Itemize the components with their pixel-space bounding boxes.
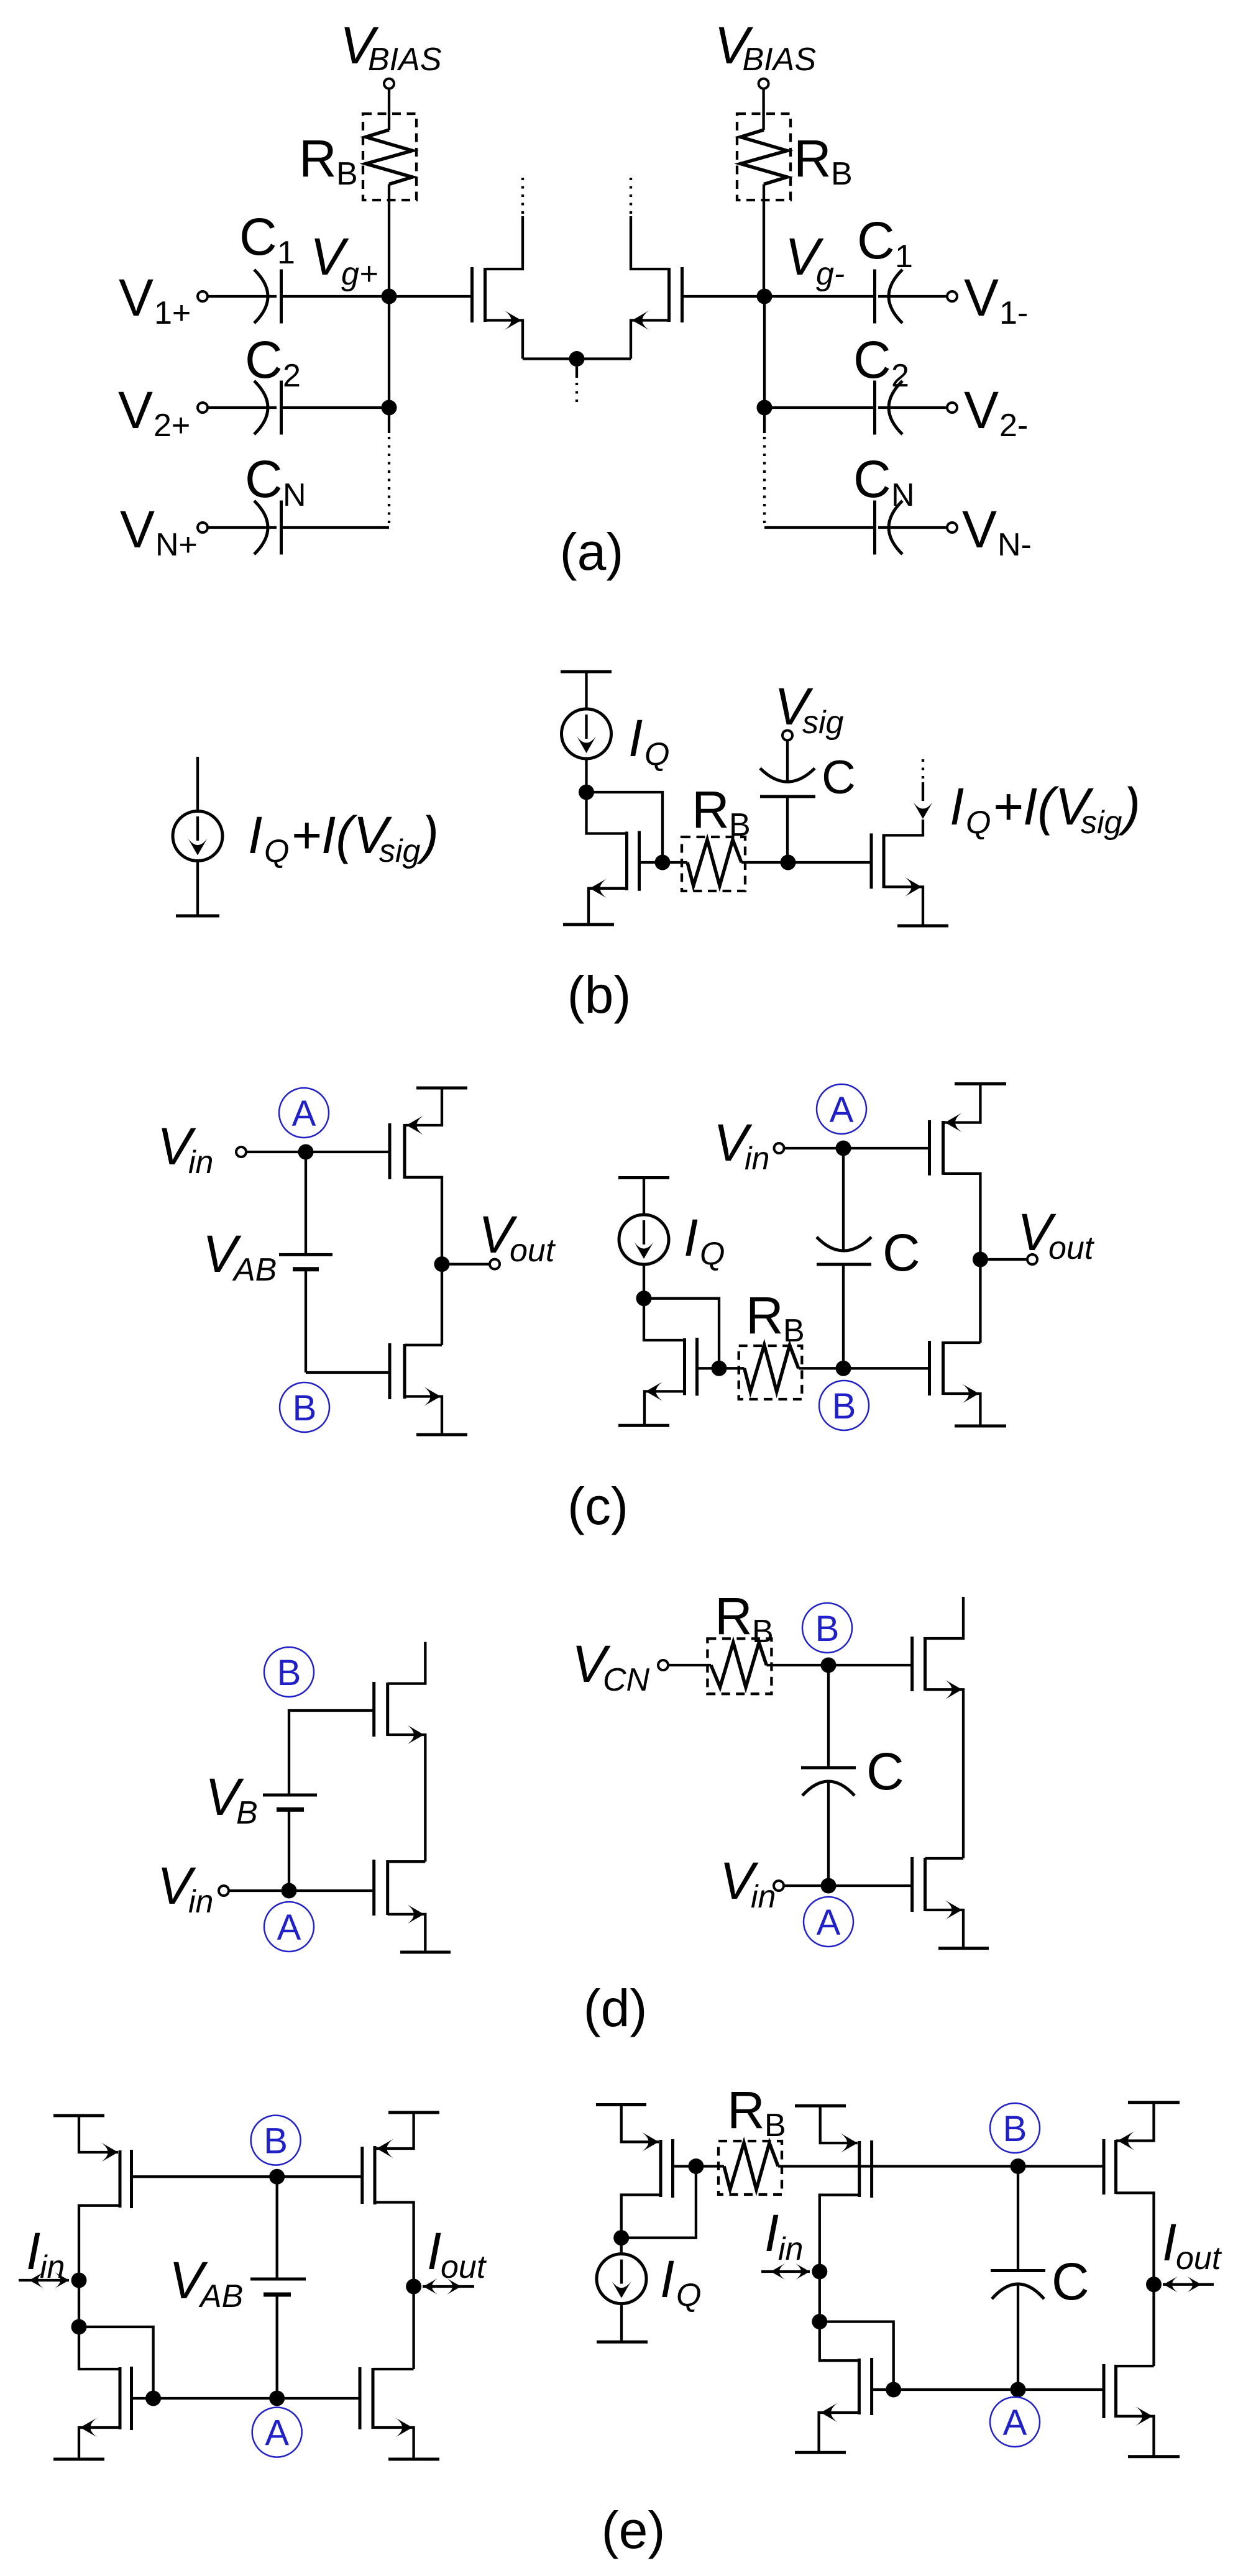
wire Vsig to capacitor C <box>786 741 789 782</box>
ground bar N3 <box>795 2451 846 2454</box>
node B circled label (c) left <box>280 1382 329 1432</box>
svg-text:C: C <box>853 450 891 508</box>
wire dotted above M2 drain <box>630 178 632 214</box>
svg-text:R: R <box>715 1587 753 1645</box>
svg-text:+I(V: +I(V <box>291 806 392 864</box>
transistor MP (c) right <box>928 1120 931 1176</box>
resistor RB (e) zigzag <box>724 2143 778 2190</box>
node Vout terminal (c) left <box>490 1259 500 1269</box>
resistor RB left zigzag <box>366 130 413 185</box>
wire bus Vg- to row2 <box>763 296 766 408</box>
node diode junction (e) right <box>812 2314 827 2329</box>
svg-text:B: B <box>783 1313 805 1349</box>
resistor RB (e) dashed box <box>718 2141 782 2195</box>
svg-text:B: B <box>277 1653 301 1693</box>
wire Iout to N2 drain <box>412 2286 415 2369</box>
node VN- terminal <box>947 523 957 532</box>
node B circled label (c) right <box>819 1381 869 1430</box>
svg-text:sig: sig <box>802 705 844 741</box>
wire Iin to diode node <box>78 2280 80 2327</box>
wire Vin to gate (d) right <box>784 1884 912 1887</box>
svg-text:R: R <box>692 780 730 839</box>
wire current source to M5 drain <box>643 1264 645 1299</box>
svg-text:C: C <box>245 331 283 389</box>
wire VCN to RB (d) <box>668 1664 711 1666</box>
capacitor CN left <box>254 501 268 554</box>
wire gate dot to RB (e) <box>696 2165 724 2167</box>
transistor N3 (e) right <box>820 2322 860 2361</box>
wire RB to B node (d) <box>766 1664 912 1666</box>
svg-text:I: I <box>427 2222 441 2280</box>
node B junction (e) right <box>1011 2158 1026 2174</box>
svg-text:B: B <box>752 1614 774 1650</box>
svg-text:C: C <box>822 751 856 804</box>
wire Vout (c) left <box>441 1256 443 1345</box>
node A junction (e) right <box>1011 2382 1026 2398</box>
resistor RB (d) zigzag <box>711 1643 766 1688</box>
ground bar (d) right <box>938 1947 989 1950</box>
svg-text:BIAS: BIAS <box>368 42 442 78</box>
rail bar top of (b) right <box>561 670 612 674</box>
svg-text:(b): (b) <box>567 966 631 1024</box>
svg-text:B: B <box>815 1609 840 1649</box>
svg-text:BIAS: BIAS <box>743 42 817 78</box>
svg-text:in: in <box>188 1144 213 1181</box>
wire CN to VN- <box>878 526 947 529</box>
resistor RB right (dashed box) <box>737 114 791 200</box>
wire C2 to V2- <box>878 406 947 409</box>
node Vg+ junction <box>382 289 397 304</box>
wire bus to CN right <box>764 526 875 529</box>
node M5 gate junction <box>712 1361 727 1376</box>
wire CN to bus <box>282 526 390 529</box>
transistor N2 (e) left <box>359 2367 362 2429</box>
svg-text:in: in <box>188 1884 213 1920</box>
svg-text:Q: Q <box>644 736 669 772</box>
capacitor C (d) <box>827 1665 830 1768</box>
rail bar (c) left <box>416 1087 467 1090</box>
wire battery to NMOS gate (c) left <box>306 1371 390 1374</box>
wire below left current source <box>196 861 199 916</box>
transistor M3 diode-connected <box>587 792 627 834</box>
wire M5 gate to RB (c) <box>719 1367 745 1369</box>
wire bus to C2 right <box>764 406 875 409</box>
current source IQ (c) <box>619 1215 669 1264</box>
wire rail to current source <box>585 672 587 710</box>
arrow Iout (e) right <box>1163 2283 1214 2286</box>
node A circled label (c) left <box>279 1088 329 1138</box>
svg-text:B: B <box>1003 2109 1027 2149</box>
svg-text:A: A <box>292 1094 316 1134</box>
svg-text:N: N <box>283 477 306 513</box>
node VCN terminal <box>658 1660 668 1670</box>
svg-text:CN: CN <box>603 1662 650 1698</box>
wire C1 to V1- <box>878 295 947 298</box>
wire bus below row2 <box>388 408 390 433</box>
svg-text:A: A <box>1003 2403 1027 2443</box>
wire VBIAS to RB right <box>762 89 764 130</box>
transistor P2 (e) left <box>360 2147 364 2204</box>
svg-text:C: C <box>883 1223 920 1282</box>
wire rail to current source (c) <box>643 1178 645 1217</box>
wire Vin to gate (c) right <box>784 1147 928 1149</box>
resistor RB (c) dashed box <box>739 1346 802 1399</box>
ground bar (d) left <box>400 1951 451 1954</box>
node A circled label (e) right <box>990 2397 1040 2447</box>
wire V1+ to C1 <box>208 295 277 298</box>
svg-text:B: B <box>831 156 853 192</box>
wire dotted above M1 drain <box>521 178 524 214</box>
node Vin terminal (d) left <box>219 1886 229 1896</box>
transistor N4 (e) right <box>1103 2364 1106 2418</box>
svg-text:Q: Q <box>966 805 991 841</box>
transistor M8 cascode (d) right <box>910 1637 914 1691</box>
capacitor C1 right <box>873 270 876 324</box>
node M3 drain junction <box>579 785 594 800</box>
transistor N1 (e) left <box>79 2327 120 2369</box>
wire diode tie N3 <box>820 2322 894 2390</box>
capacitor C (b) <box>760 769 815 782</box>
node M3 gate junction <box>655 855 671 870</box>
wire RB to B node (e) <box>778 2165 1104 2167</box>
svg-text:2: 2 <box>283 358 301 394</box>
svg-text:C: C <box>239 208 277 266</box>
svg-text:out: out <box>510 1233 556 1269</box>
rail bar (c) right <box>955 1082 1006 1085</box>
svg-text:B: B <box>293 1388 317 1428</box>
wire Vin to gate (d) left <box>229 1889 374 1892</box>
wire Iin to diode node (e) right <box>818 2272 821 2322</box>
svg-text:1: 1 <box>895 239 913 275</box>
ground bar M3 <box>563 923 614 926</box>
svg-text:out: out <box>1048 1230 1095 1266</box>
node M5 drain junction <box>636 1290 652 1306</box>
wire bus to C1 right <box>764 295 875 298</box>
node B junction (c) right <box>836 1361 851 1376</box>
svg-text:I: I <box>764 2204 779 2262</box>
svg-text:V: V <box>118 381 153 439</box>
svg-text:g-: g- <box>816 256 845 292</box>
node B junction (e) left <box>269 2169 285 2185</box>
wire diode tie M3 <box>587 792 663 862</box>
wire bus below row2 right <box>763 408 766 433</box>
node Vout junction (c) right <box>973 1252 988 1267</box>
svg-text:in: in <box>751 1879 776 1915</box>
transistor MN (c) right <box>928 1341 931 1395</box>
svg-text:1-: 1- <box>999 295 1028 331</box>
svg-text:V: V <box>119 268 154 327</box>
wire V2+ to C2 <box>208 406 277 409</box>
wire diode tie P3 <box>621 2167 696 2238</box>
node V2- terminal <box>947 403 957 413</box>
transistor M4 <box>870 833 873 888</box>
svg-text:(e): (e) <box>602 2501 666 2559</box>
capacitor C2 right <box>873 381 876 435</box>
node A circled label (d) left <box>264 1902 314 1952</box>
svg-text:B: B <box>729 807 751 843</box>
svg-text:Q: Q <box>676 2277 701 2313</box>
svg-text:V: V <box>964 268 999 327</box>
node Vin terminal (c) right <box>774 1143 784 1153</box>
svg-text:I: I <box>26 2222 40 2280</box>
ground bar M5 <box>618 1424 669 1427</box>
capacitor C (c) <box>842 1264 845 1368</box>
svg-text:B: B <box>764 2108 786 2144</box>
node Vg- junction <box>757 289 773 304</box>
transistor M6 cascode (d) left <box>372 1682 375 1737</box>
resistor RB (b) zigzag <box>687 840 741 886</box>
wire capacitor to node <box>786 797 789 862</box>
node N3 gate junction <box>886 2382 901 2398</box>
node B circled label (d) right <box>802 1603 852 1653</box>
svg-text:g+: g+ <box>341 256 378 292</box>
node B circled label (d) left <box>264 1647 314 1697</box>
resistor RB (d) dashed box <box>707 1638 771 1694</box>
svg-text:+I(V: +I(V <box>993 777 1094 836</box>
capacitor C2 left <box>254 381 268 434</box>
svg-text:R: R <box>746 1286 784 1345</box>
svg-text:C: C <box>1052 2252 1089 2311</box>
wire dotted bus left <box>388 437 390 528</box>
ground bar (c) left <box>416 1433 467 1436</box>
transistor M7 (d) left <box>372 1860 375 1916</box>
wire below tail <box>575 367 578 378</box>
node B circled label (e) left <box>251 2116 301 2165</box>
svg-text:R: R <box>794 129 832 188</box>
ground bar left current source <box>176 915 219 918</box>
node Iout junction (e) left <box>406 2279 421 2295</box>
rail bar (e) right top-middle <box>795 2104 846 2108</box>
svg-text:in: in <box>745 1141 769 1177</box>
node B circled label (e) right <box>990 2103 1040 2153</box>
node VBIAS left terminal <box>384 79 394 89</box>
wire diode tie M5 <box>644 1299 719 1369</box>
node P3 gate junction <box>688 2158 704 2174</box>
wire RB to Vg- bus <box>763 185 765 297</box>
svg-text:R: R <box>727 2081 765 2139</box>
ground bar IQ (e) <box>597 2341 648 2344</box>
battery VB (d) <box>263 1794 317 1797</box>
rail bar (e) right top-right <box>1128 2101 1180 2104</box>
transistor MP (c) left <box>388 1123 392 1179</box>
node Vin terminal (c) left <box>236 1147 246 1157</box>
svg-text:B: B <box>236 1795 258 1831</box>
svg-text:I: I <box>248 806 262 864</box>
battery VAB (c) <box>305 1152 307 1254</box>
node A circled label (d) right <box>804 1897 853 1947</box>
svg-text:B: B <box>832 1386 856 1427</box>
wire B corner to cascode gate (d) left <box>289 1710 374 1795</box>
transistor P1 (e) left <box>79 2116 118 2152</box>
wire diode tie N1 (e) left <box>79 2327 154 2398</box>
svg-text:R: R <box>299 129 337 188</box>
svg-text:C: C <box>853 331 891 389</box>
node Iin junction (e) left <box>71 2273 87 2288</box>
svg-text:out: out <box>441 2249 487 2285</box>
node V2+ terminal <box>198 403 208 413</box>
wire dotted bus right <box>763 437 766 528</box>
node row2 junction left <box>382 400 397 416</box>
capacitor C1 left <box>254 270 268 323</box>
wire tail of diff pair <box>523 357 631 360</box>
node A circled label (e) left <box>252 2408 302 2457</box>
svg-text:V: V <box>962 500 997 559</box>
node Vsig terminal <box>782 731 792 741</box>
svg-text:C: C <box>857 211 895 270</box>
resistor RB left (dashed box) <box>363 114 416 200</box>
node V1- terminal <box>947 291 957 301</box>
svg-text:N: N <box>891 477 915 513</box>
node A junction (e) left <box>269 2391 285 2406</box>
node A junction (d) left <box>282 1883 297 1899</box>
node Vin terminal (d) right <box>774 1881 784 1891</box>
node cap bottom junction <box>781 855 796 870</box>
node A circled label (c) right <box>817 1084 866 1134</box>
svg-text:N-: N- <box>997 527 1032 563</box>
svg-text:I: I <box>660 2250 674 2308</box>
transistor P3 diode (e) right <box>621 2105 659 2142</box>
current source IQ+I(Vsig) standalone <box>173 811 222 861</box>
svg-text:AB: AB <box>198 2278 243 2314</box>
svg-text:I: I <box>1162 2213 1176 2272</box>
rail bar (e) left top-left <box>53 2114 104 2117</box>
wire RB to node B (c) <box>799 1367 928 1369</box>
rail bar (e) right far-left <box>596 2103 646 2106</box>
current source IQ <box>562 709 612 759</box>
svg-text:C: C <box>245 450 283 508</box>
svg-text:2: 2 <box>891 358 909 394</box>
svg-text:in: in <box>40 2249 65 2285</box>
transistor P5 (e) right <box>1103 2139 1106 2195</box>
wire Iout to N4 drain <box>1152 2285 1155 2366</box>
transistor M1 left of diff pair <box>389 295 470 298</box>
node diode junction (e) left <box>71 2319 87 2335</box>
ground bar N1 <box>53 2458 104 2461</box>
svg-text:A: A <box>817 1902 841 1943</box>
wire VN+ to CN <box>208 526 277 529</box>
transistor M9 (d) right <box>910 1857 914 1912</box>
wire Vin to gate <box>246 1151 388 1153</box>
ground bar N2 <box>388 2458 439 2461</box>
wire C1 to bus <box>282 295 390 298</box>
node A junction (c) left <box>298 1144 314 1160</box>
svg-text:Q: Q <box>264 833 289 869</box>
svg-text:I: I <box>628 709 643 767</box>
ground bar (c) right <box>955 1425 1006 1428</box>
node Vout junction (c) left <box>434 1256 450 1272</box>
svg-text:V: V <box>964 381 999 439</box>
resistor RB right zigzag <box>741 130 787 185</box>
svg-text:V: V <box>120 500 155 559</box>
wire RB to Vg+ bus <box>388 185 390 297</box>
resistor RB (b) dashed box <box>682 837 745 891</box>
svg-text:sig: sig <box>379 833 421 869</box>
svg-text:1+: 1+ <box>154 295 191 331</box>
wire VBIAS to RB left <box>388 89 390 130</box>
svg-text:C: C <box>866 1742 904 1801</box>
node P3 drain junction <box>613 2230 629 2245</box>
svg-text:A: A <box>830 1090 854 1130</box>
node V1+ terminal <box>198 291 208 301</box>
svg-text:out: out <box>1176 2240 1222 2277</box>
svg-text:(d): (d) <box>584 1979 648 2037</box>
node Iin junction (e) right <box>812 2264 827 2280</box>
ground bar N4 <box>1128 2455 1180 2458</box>
current source IQ (e) <box>620 2238 623 2254</box>
wire P1 gate to B <box>132 2175 277 2178</box>
svg-text:A: A <box>265 2413 289 2454</box>
svg-text:(a): (a) <box>560 523 624 581</box>
wire node to M4 gate <box>788 861 870 864</box>
arrow Iin (e) left <box>19 2279 69 2281</box>
svg-text:I: I <box>950 777 964 836</box>
svg-text:2-: 2- <box>999 408 1028 444</box>
svg-text:1: 1 <box>277 235 295 271</box>
svg-text:sig: sig <box>1081 805 1122 841</box>
transistor P4 (e) right <box>820 2106 858 2143</box>
rail bar (c) right current source <box>618 1176 669 1179</box>
wire M3 gate to RB <box>663 861 687 864</box>
battery VAB (e) <box>276 2176 278 2279</box>
node N1 gate junction <box>145 2391 161 2406</box>
wire RB to node <box>741 861 788 864</box>
arrow Iin (e) right <box>761 2270 810 2273</box>
svg-text:2+: 2+ <box>154 408 190 444</box>
rail bar (e) left top-right <box>388 2111 439 2114</box>
node A junction (d) right <box>821 1878 837 1894</box>
ground bar M4 <box>897 925 948 928</box>
node A junction (c) right <box>836 1141 851 1156</box>
current arrow into M4 drain <box>914 802 933 819</box>
wire bus Vg+ to row2 <box>388 296 390 408</box>
node Iout junction (e) right <box>1146 2277 1162 2292</box>
svg-text:AB: AB <box>232 1252 277 1288</box>
arrow Iout (e) left <box>423 2285 474 2288</box>
svg-text:B: B <box>336 156 358 192</box>
node Vout terminal (c) right <box>1027 1254 1037 1264</box>
resistor RB (c) zigzag <box>745 1345 799 1392</box>
svg-text:I: I <box>684 1208 698 1267</box>
transistor M2 right of diff pair <box>684 295 764 298</box>
svg-text:Q: Q <box>700 1236 725 1272</box>
node tail junction <box>569 351 585 367</box>
capacitor CN right <box>873 501 876 555</box>
wire C2 to bus <box>282 406 390 409</box>
svg-text:N+: N+ <box>155 527 198 563</box>
capacitor C (e) <box>1017 2167 1019 2271</box>
wire current source to M3 drain node <box>585 759 587 792</box>
node VN+ terminal <box>198 523 208 532</box>
svg-text:A: A <box>277 1907 301 1948</box>
transistor MN (c) left <box>388 1343 392 1399</box>
transistor M5 diode-connected (c) <box>644 1299 685 1340</box>
wire Vout (c) right <box>979 1251 981 1343</box>
node row2 junction right <box>757 400 773 416</box>
svg-text:(c): (c) <box>567 1477 628 1535</box>
wire above left current source <box>196 757 199 812</box>
svg-text:in: in <box>778 2231 803 2267</box>
svg-text:B: B <box>264 2121 288 2162</box>
node B junction (d) <box>821 1658 837 1673</box>
node VBIAS right terminal <box>759 79 769 89</box>
